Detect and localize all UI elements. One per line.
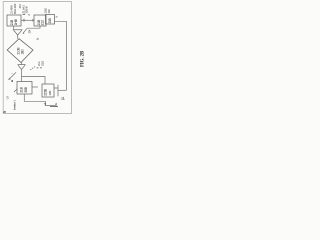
svg-text:1B0: 1B0 — [20, 49, 24, 55]
dashed arrow to valve — [30, 67, 35, 70]
lead arrow L1 (left pointer) — [9, 72, 16, 79]
diamond D1 (decision) — [7, 39, 33, 63]
arrowhead at antenna — [23, 32, 25, 34]
svg-text:212: 212 — [41, 20, 45, 25]
svg-text:20B: 20B — [48, 91, 52, 96]
svg-text:2163 B: 2163 B — [24, 6, 28, 13]
valve V1 below diamond — [18, 63, 26, 82]
page border frame — [3, 2, 71, 114]
wire B2 right riser — [54, 85, 58, 96]
lead tick at B1 corner — [14, 89, 17, 92]
wire U3 right to long vertical net — [55, 21, 67, 90]
svg-text:2B: 2B — [3, 110, 6, 114]
svg-text:21B: 21B — [19, 86, 23, 92]
svg-text:2152: 2152 — [40, 60, 44, 66]
label block line3 — [37, 67, 39, 70]
tick under label — [23, 13, 26, 16]
svg-text:BLK 21B: BLK 21B — [13, 4, 17, 14]
svg-text:1HB: 1HB — [14, 18, 18, 25]
box B2 (bottom-middle block) — [42, 84, 54, 97]
antenna A1 feed from U1 — [13, 26, 15, 29]
feedback wire U2 to antenna — [23, 26, 40, 33]
box B1 (bottom-left block) — [17, 82, 32, 95]
box U2 (top-middle block) — [34, 15, 46, 26]
svg-text:30B: 30B — [24, 86, 28, 92]
svg-text:Interface 1: Interface 1 — [13, 100, 17, 110]
wire valve junction to B2 — [22, 77, 46, 85]
box U1 (top-left block) — [7, 15, 21, 26]
dot mark — [11, 80, 13, 82]
svg-text:CA: CA — [6, 96, 10, 100]
svg-text:β1: β1 — [61, 96, 65, 100]
stub wire B1 right — [32, 86, 38, 88]
antenna A1 — [13, 30, 23, 39]
wire B1 bottom run — [24, 94, 55, 106]
svg-text:21B: 21B — [48, 18, 52, 23]
svg-text:FIG. 2B: FIG. 2B — [80, 51, 85, 67]
wire node at (58,91) to net — [58, 89, 66, 91]
dark wire segment — [50, 106, 58, 108]
wire arrow U1 to U2 — [21, 19, 33, 21]
arrowhead U1 to U2 — [32, 19, 34, 22]
box U3 (top-right block) — [46, 15, 55, 25]
